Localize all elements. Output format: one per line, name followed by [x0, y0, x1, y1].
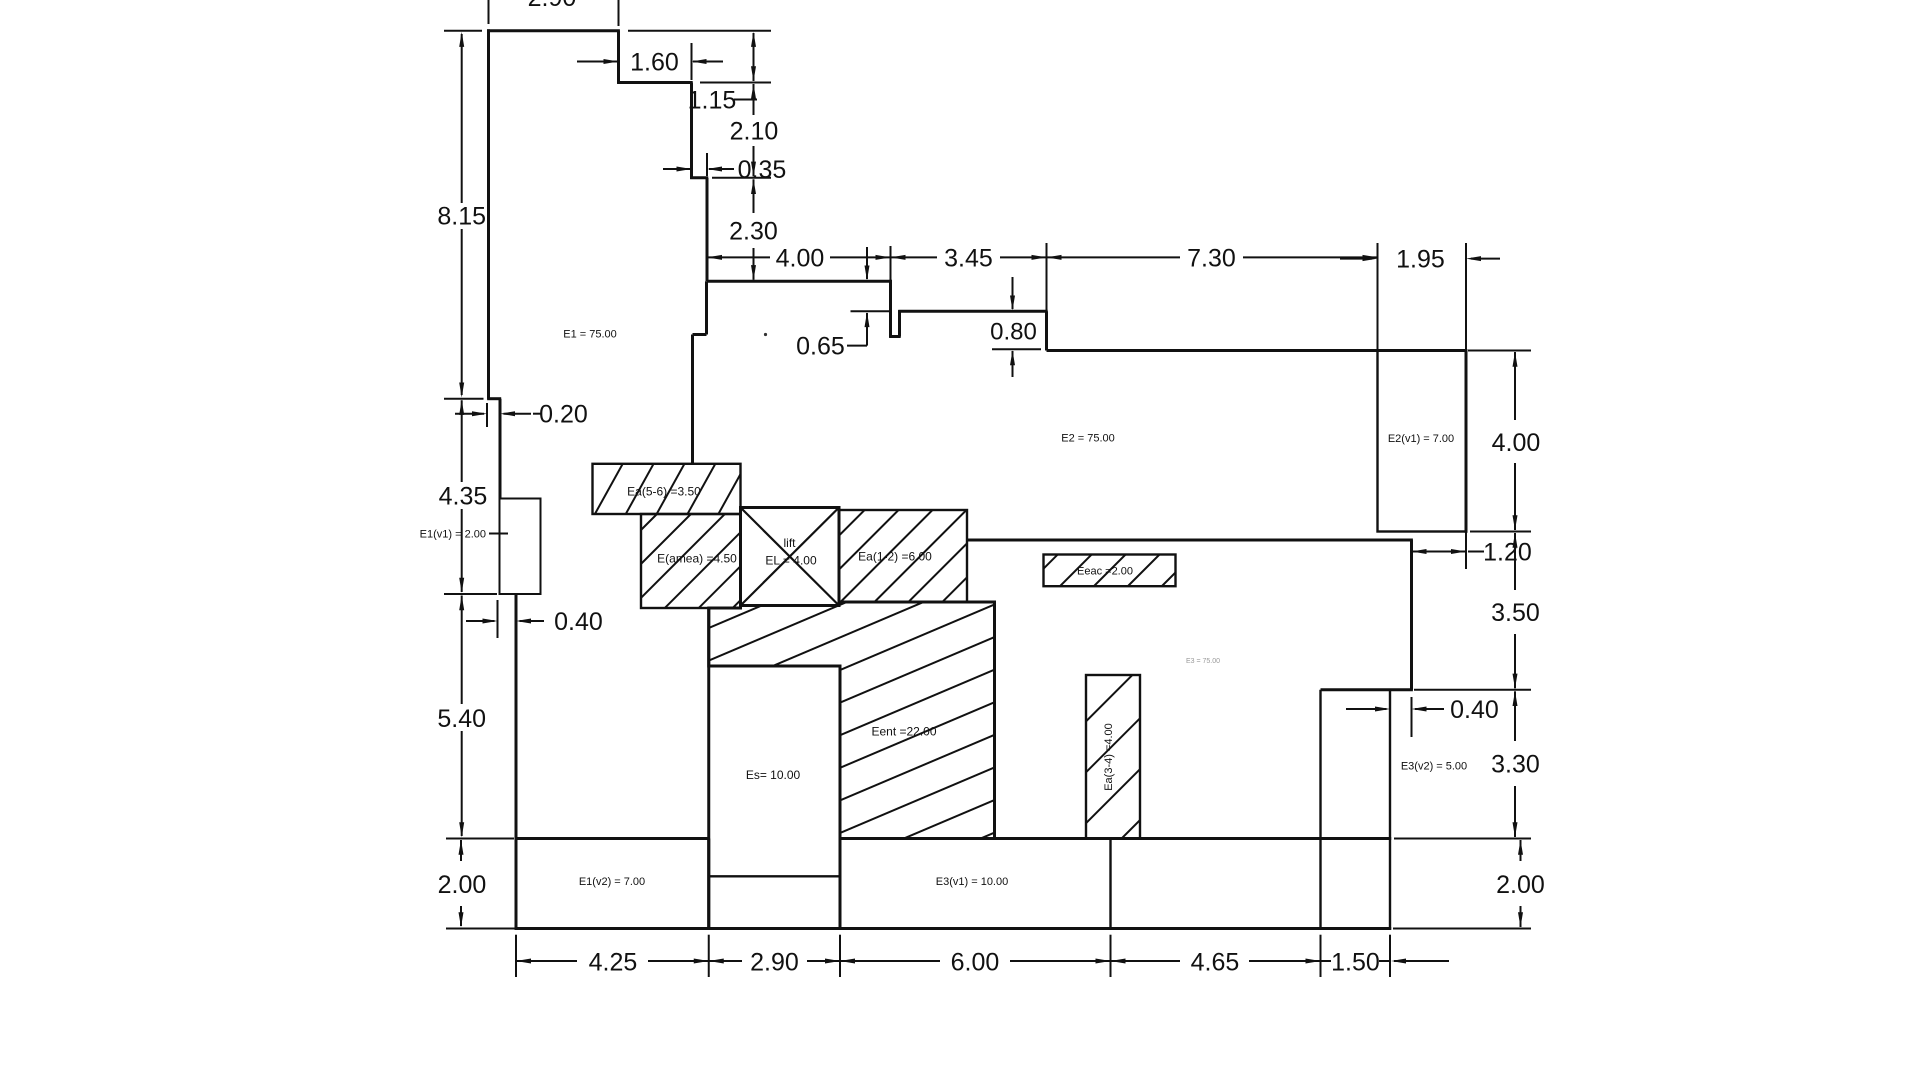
svg-text:0.35: 0.35: [738, 156, 787, 184]
svg-text:6.00: 6.00: [951, 948, 1000, 976]
svg-text:E2(v1) = 7.00: E2(v1) = 7.00: [1388, 433, 1454, 445]
dim 0.65: [866, 247, 868, 279]
svg-text:E1(v1) = 2.00: E1(v1) = 2.00: [420, 529, 486, 541]
stair box Es bottom edge: [709, 875, 840, 877]
lift shaft box: [741, 508, 840, 606]
hatched area E(amea): [641, 514, 741, 608]
svg-text:7.30: 7.30: [1187, 244, 1236, 272]
dim 3.50 right: [1514, 533, 1516, 590]
stair box Es top edge: [709, 665, 840, 668]
wire notch left vertical: [889, 280, 892, 338]
wire E3 top edge: [967, 539, 1413, 542]
svg-text:2.00: 2.00: [438, 871, 487, 899]
svg-text:5.40: 5.40: [437, 705, 486, 733]
svg-text:4.65: 4.65: [1191, 948, 1240, 976]
wire building left edge: [487, 29, 490, 398]
window E3(v1) right edge: [1109, 839, 1111, 930]
svg-text:3.45: 3.45: [944, 244, 993, 272]
svg-text:Ea(5-6) =3.50: Ea(5-6) =3.50: [627, 485, 701, 499]
svg-text:0.20: 0.20: [539, 401, 588, 429]
dim 2.10: [753, 84, 755, 115]
svg-text:1.60: 1.60: [630, 49, 679, 77]
svg-text:2.30: 2.30: [729, 218, 778, 246]
svg-text:E3(v2) = 5.00: E3(v2) = 5.00: [1401, 761, 1467, 773]
wire left wall below E1(v1) down to ground: [515, 594, 518, 930]
lift cross diagonal 1: [741, 508, 840, 606]
svg-text:1.50: 1.50: [1331, 948, 1380, 976]
svg-text:1.15: 1.15: [688, 87, 737, 115]
svg-text:E1(v2) = 7.00: E1(v2) = 7.00: [579, 876, 645, 888]
wire ground line left segment (E1(v2) top): [515, 837, 709, 840]
dim 0.40 left: [497, 600, 499, 638]
wire notch bottom: [889, 335, 900, 338]
dim 1.20: [1411, 545, 1413, 576]
wire E3 right edge upper: [1410, 540, 1413, 690]
dim 3.45: [891, 256, 938, 258]
svg-text:Ea(1-2) =6.00: Ea(1-2) =6.00: [858, 550, 932, 564]
dim 4.35: [444, 398, 484, 400]
dim 1.15: [628, 30, 771, 32]
hatched area Ea(1-2): [839, 510, 967, 602]
svg-text:2.90: 2.90: [528, 0, 577, 12]
dim 1.60: [691, 43, 693, 80]
svg-text:3.50: 3.50: [1491, 599, 1540, 627]
svg-text:0.40: 0.40: [1450, 696, 1499, 724]
window E2(v1): [1378, 351, 1467, 532]
wire bottom line: [515, 927, 1392, 930]
svg-text:0.40: 0.40: [554, 608, 603, 636]
dim 2.90 bottom: [709, 960, 742, 962]
svg-text:4.35: 4.35: [439, 483, 488, 511]
dim 2.90 top ext lines: [488, 0, 490, 24]
wire 4.00 top horizontal: [707, 280, 892, 283]
dim 3.30 right: [1514, 691, 1516, 741]
wire E2 corner vertical: [1045, 311, 1048, 350]
svg-text:2.00: 2.00: [1496, 871, 1545, 899]
svg-text:E3(v1) = 10.00: E3(v1) = 10.00: [936, 876, 1008, 888]
wire E1 right boundary down to Ea(5-6): [691, 335, 694, 464]
window E3(v2) left edge: [1319, 690, 1321, 930]
window E2(v1) right ext below: [1465, 532, 1467, 570]
dim 0.20: [486, 403, 488, 427]
svg-text:Ea(3-4) =4.00: Ea(3-4) =4.00: [1103, 723, 1115, 791]
svg-text:E2 = 75.00: E2 = 75.00: [1061, 433, 1115, 445]
wire step down right of top edge: [617, 31, 620, 84]
wire left wall above E1(v1): [499, 399, 502, 499]
svg-text:Eeac =2.00: Eeac =2.00: [1077, 565, 1133, 577]
wire vertical 2.30 segment: [706, 178, 709, 281]
svg-text:4.00: 4.00: [776, 244, 825, 272]
wire 0.80 upper horizontal: [898, 310, 1047, 313]
hatched area Eeac: [1044, 555, 1176, 587]
svg-text:0.65: 0.65: [796, 333, 845, 361]
dim 1.95: [1377, 243, 1379, 351]
dim row bottom extension ticks: [515, 935, 517, 977]
svg-text:2.90: 2.90: [750, 948, 799, 976]
hatched area Eent: [709, 602, 995, 839]
dim 4.25: [516, 960, 577, 962]
dim 0.35: [706, 153, 708, 176]
dim 1.50: [1321, 960, 1332, 962]
svg-text:1.95: 1.95: [1396, 246, 1445, 274]
stray dot: [764, 333, 767, 336]
svg-text:Eent =22.00: Eent =22.00: [871, 724, 936, 738]
wire notch right vertical: [898, 310, 901, 336]
svg-text:3.30: 3.30: [1491, 750, 1540, 778]
wire ground line right segment (E3 base): [840, 837, 1391, 840]
wire 0.20 step: [487, 397, 501, 400]
dim 6.00: [840, 960, 940, 962]
svg-text:E(amea) =4.50: E(amea) =4.50: [657, 551, 737, 565]
svg-text:EL = 4.00: EL = 4.00: [765, 553, 817, 567]
svg-text:8.15: 8.15: [437, 203, 486, 231]
lift cross diagonal 2: [741, 508, 840, 606]
dim 4.00 right: [1468, 350, 1531, 352]
dim 2.00 right: [1520, 840, 1522, 861]
window E1(v2) right edge / Es lower left: [707, 839, 710, 929]
wire 0.35 step horizontal: [690, 176, 708, 179]
svg-text:4.25: 4.25: [589, 948, 638, 976]
hatched area Ea(3-4): [1086, 675, 1140, 839]
wire vertical 2.10 segment: [690, 83, 693, 180]
wire building right edge: [1465, 351, 1468, 533]
dim 4.65: [1111, 960, 1181, 962]
wire E2 top edge: [1047, 349, 1468, 352]
window E1(v1): [500, 499, 541, 595]
dim 0.40 right: [1346, 708, 1387, 710]
svg-text:0.80: 0.80: [990, 318, 1037, 345]
wire small left step at E1 right boundary: [693, 333, 707, 336]
window E3(v2) right edge: [1389, 690, 1391, 930]
dim 4.00 top: [890, 246, 892, 280]
svg-text:E3 = 75.00: E3 = 75.00: [1186, 658, 1220, 665]
dim 7.30: [1046, 243, 1048, 311]
svg-text:1.20: 1.20: [1483, 539, 1532, 567]
wire top edge (2.90 span): [487, 29, 620, 32]
dim 5.40: [461, 596, 463, 705]
stair box Es left edge: [707, 608, 710, 930]
stair box Es right edge: [839, 666, 842, 930]
dim 8.15 left: [444, 30, 482, 32]
dim 0.80: [1012, 277, 1014, 309]
wire E3(v2) top edge with 0.40 step: [1321, 688, 1413, 691]
svg-text:2.10: 2.10: [730, 118, 779, 146]
svg-text:4.00: 4.00: [1492, 429, 1541, 457]
dim 2.30: [712, 177, 771, 179]
wire E1 right boundary below 4.00 corner: [705, 281, 708, 334]
svg-text:E1 = 75.00: E1 = 75.00: [563, 329, 617, 341]
svg-text:Es= 10.00: Es= 10.00: [746, 768, 801, 782]
hatched area Ea(5-6): [593, 464, 741, 514]
wire 1.60 step horizontal: [617, 81, 693, 84]
svg-text:lift: lift: [784, 536, 797, 550]
dim 2.00 left: [446, 838, 514, 840]
